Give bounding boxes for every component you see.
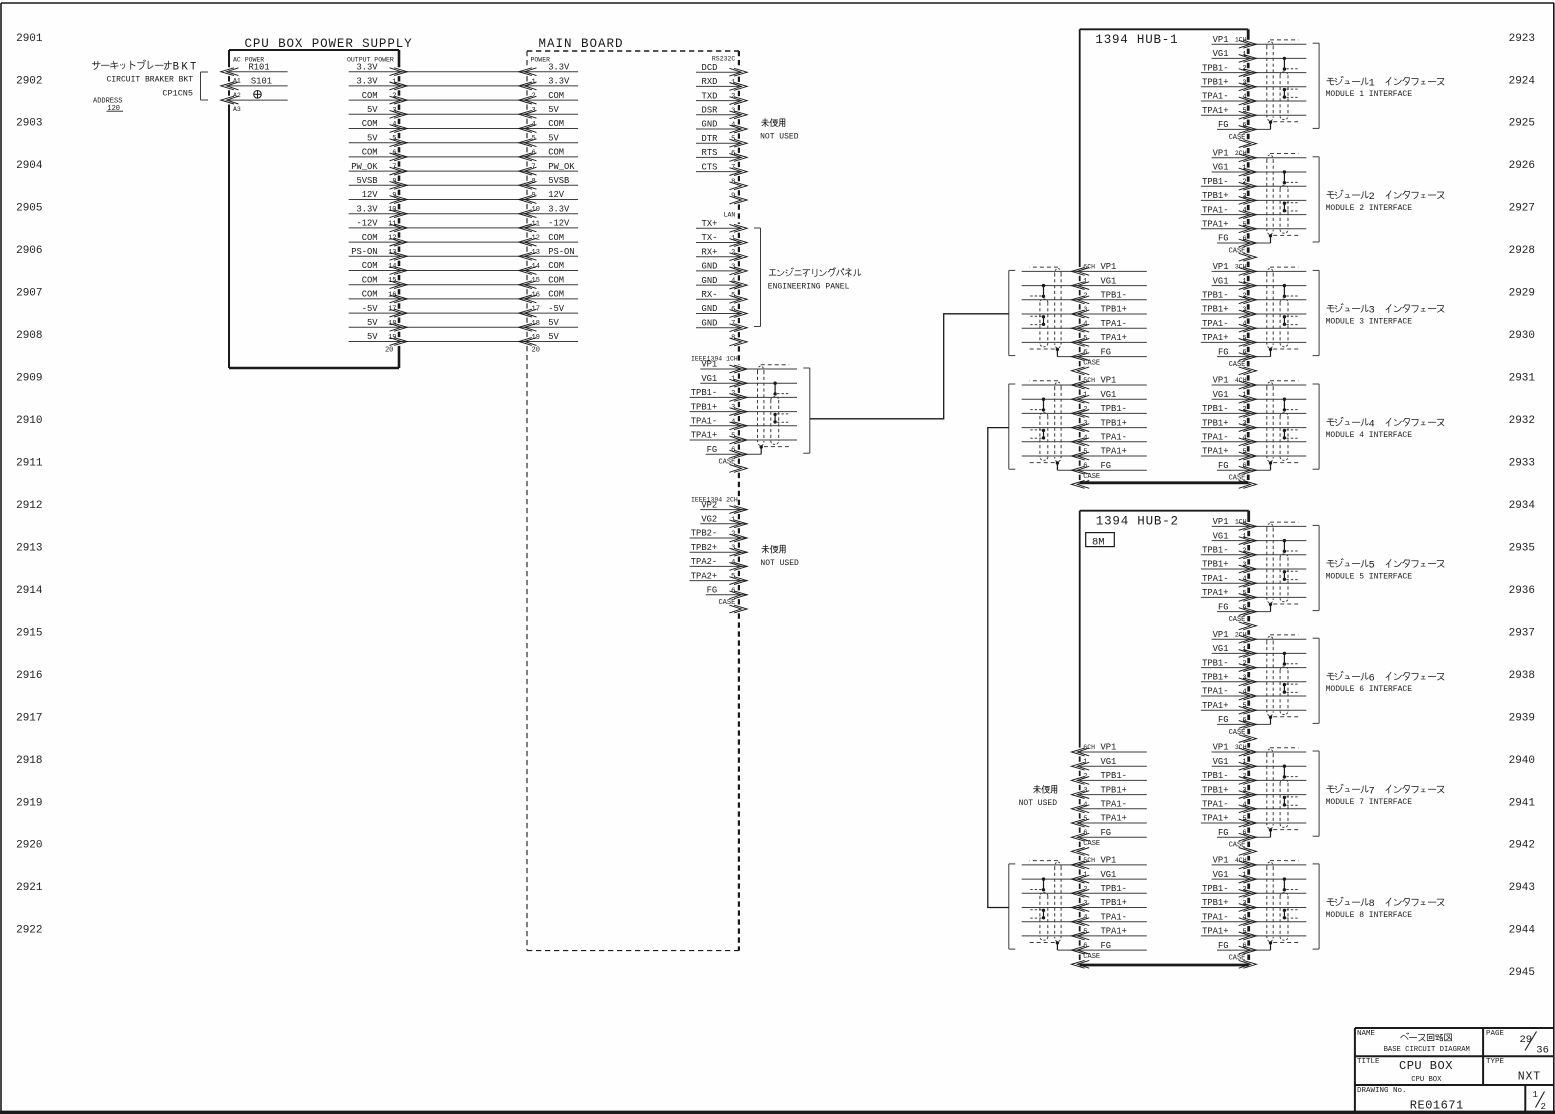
svg-text:3.3V: 3.3V	[356, 62, 378, 72]
svg-text:VG1: VG1	[1213, 531, 1229, 541]
svg-text:TPA1+: TPA1+	[1101, 447, 1127, 457]
svg-text:TPA1+: TPA1+	[1202, 106, 1228, 116]
svg-text:VG1: VG1	[701, 374, 717, 384]
svg-text:2: 2	[1541, 1102, 1546, 1112]
svg-text:1: 1	[731, 79, 735, 87]
svg-text:VG1: VG1	[1213, 276, 1229, 286]
svg-text:16: 16	[388, 291, 396, 299]
svg-text:DCD: DCD	[702, 63, 718, 73]
svg-text:2: 2	[532, 93, 536, 101]
svg-text:5V: 5V	[367, 332, 378, 342]
svg-text:7: 7	[1369, 786, 1375, 797]
svg-text:FG: FG	[1218, 347, 1229, 357]
svg-text:2: 2	[731, 249, 735, 257]
svg-text:TPB1+: TPB1+	[1101, 898, 1127, 908]
svg-text:3: 3	[532, 107, 536, 115]
svg-text:RX+: RX+	[702, 247, 718, 257]
svg-text:TPB1-: TPB1-	[1101, 404, 1127, 414]
svg-text:6: 6	[731, 306, 735, 314]
svg-text:FG: FG	[1101, 828, 1112, 838]
svg-text:BASE CIRCUIT DIAGRAM: BASE CIRCUIT DIAGRAM	[1384, 1046, 1470, 1054]
svg-text:COM: COM	[362, 275, 378, 285]
svg-text:2922: 2922	[16, 925, 42, 937]
svg-text:TPB1+: TPB1+	[1202, 673, 1228, 683]
svg-text:2: 2	[731, 93, 735, 101]
svg-text:8: 8	[392, 178, 396, 186]
svg-text:TPB1-: TPB1-	[1101, 771, 1127, 781]
svg-text:COM: COM	[362, 91, 378, 101]
svg-text:4: 4	[731, 278, 735, 286]
svg-text:1: 1	[532, 78, 536, 86]
svg-text:VP1: VP1	[1213, 517, 1229, 527]
svg-text:VP1: VP1	[1213, 630, 1229, 640]
svg-text:1CH: 1CH	[1235, 519, 1247, 526]
svg-text:1: 1	[1369, 79, 1375, 90]
svg-text:2936: 2936	[1509, 585, 1535, 597]
svg-text:6: 6	[1369, 674, 1375, 685]
svg-text:10: 10	[388, 206, 396, 214]
svg-text:CPU BOX POWER SUPPLY: CPU BOX POWER SUPPLY	[245, 37, 413, 51]
svg-text:5V: 5V	[548, 318, 559, 328]
svg-text:2939: 2939	[1509, 712, 1535, 724]
svg-text:VG1: VG1	[1213, 644, 1229, 654]
svg-text:2935: 2935	[1509, 542, 1535, 554]
svg-text:CASE: CASE	[1229, 842, 1246, 850]
svg-text:TPB1-: TPB1-	[1202, 177, 1228, 187]
svg-text:6: 6	[731, 150, 735, 158]
svg-text:9: 9	[392, 192, 396, 200]
svg-text:2924: 2924	[1509, 75, 1536, 87]
svg-text:CASE: CASE	[718, 599, 735, 607]
svg-text:FG: FG	[707, 586, 718, 596]
svg-text:1: 1	[1533, 1090, 1538, 1100]
svg-text:FG: FG	[1218, 234, 1229, 244]
svg-text:2915: 2915	[16, 627, 42, 639]
svg-text:TPB1+: TPB1+	[691, 402, 717, 412]
svg-text:5CH: 5CH	[1083, 377, 1095, 384]
svg-text:10: 10	[532, 206, 540, 214]
svg-text:GND: GND	[702, 262, 718, 272]
svg-text:VG1: VG1	[1101, 390, 1117, 400]
svg-text:TPA1-: TPA1-	[1202, 687, 1228, 697]
svg-text:NOT USED: NOT USED	[760, 133, 799, 142]
svg-text:3CH: 3CH	[1235, 264, 1247, 271]
svg-text:3: 3	[731, 107, 735, 115]
svg-text:CASE: CASE	[1083, 953, 1100, 961]
svg-text:FG: FG	[1101, 461, 1112, 471]
svg-text:ENGINEERING PANEL: ENGINEERING PANEL	[768, 282, 850, 291]
svg-text:5V: 5V	[548, 133, 559, 143]
svg-text:IEEE1394 1CH: IEEE1394 1CH	[691, 356, 738, 363]
svg-text:2: 2	[1369, 192, 1375, 203]
svg-text:TPA1+: TPA1+	[1202, 701, 1228, 711]
svg-text:DSR: DSR	[702, 106, 719, 116]
svg-text:TPA1-: TPA1-	[1101, 800, 1127, 810]
svg-text:CPU BOX: CPU BOX	[1411, 1076, 1442, 1084]
svg-text:MODULE 2 INTERFACE: MODULE 2 INTERFACE	[1326, 204, 1413, 213]
svg-text:2916: 2916	[16, 670, 42, 682]
svg-text:TPA1-: TPA1-	[1202, 912, 1228, 922]
svg-text:4CH: 4CH	[1235, 377, 1247, 384]
svg-text:TPA1+: TPA1+	[1101, 814, 1127, 824]
svg-text:NOT USED: NOT USED	[760, 559, 799, 568]
svg-text:TPB1+: TPB1+	[1101, 418, 1127, 428]
svg-text:VP1: VP1	[1213, 743, 1229, 753]
svg-text:TPB1+: TPB1+	[1202, 560, 1228, 570]
svg-text:MODULE 8 INTERFACE: MODULE 8 INTERFACE	[1326, 911, 1413, 920]
svg-text:3: 3	[731, 263, 735, 271]
svg-text:2907: 2907	[16, 288, 42, 300]
svg-text:-5V: -5V	[548, 304, 565, 314]
svg-text:2933: 2933	[1509, 458, 1535, 470]
svg-text:17: 17	[388, 306, 396, 314]
svg-text:CASE: CASE	[1229, 955, 1246, 963]
svg-text:COM: COM	[362, 290, 378, 300]
svg-text:TPA1+: TPA1+	[1202, 447, 1228, 457]
svg-text:IEEE1394 2CH: IEEE1394 2CH	[691, 496, 738, 503]
svg-text:MODULE 3 INTERFACE: MODULE 3 INTERFACE	[1326, 317, 1413, 326]
svg-text:VP1: VP1	[1213, 35, 1229, 45]
svg-text:8: 8	[1369, 899, 1375, 910]
svg-text:CASE: CASE	[1229, 616, 1246, 624]
svg-text:2909: 2909	[16, 373, 42, 385]
svg-text:TPA1-: TPA1-	[1101, 912, 1127, 922]
svg-text:VP1: VP1	[1213, 376, 1229, 386]
svg-text:12V: 12V	[362, 190, 379, 200]
svg-text:2908: 2908	[16, 330, 42, 342]
svg-text:6: 6	[392, 149, 396, 157]
svg-text:7: 7	[731, 164, 735, 172]
svg-text:VG1: VG1	[1213, 163, 1229, 173]
svg-text:1394 HUB-2: 1394 HUB-2	[1096, 514, 1179, 528]
svg-text:13: 13	[388, 249, 396, 257]
svg-text:T: T	[190, 62, 196, 74]
svg-text:2921: 2921	[16, 882, 43, 894]
svg-text:CASE: CASE	[1229, 475, 1246, 483]
svg-text:6CH: 6CH	[1083, 264, 1095, 271]
svg-text:VP1: VP1	[1213, 856, 1229, 866]
svg-text:5V: 5V	[367, 133, 378, 143]
svg-text:2901: 2901	[16, 33, 43, 45]
svg-text:TPB1-: TPB1-	[1202, 546, 1228, 556]
svg-text:COM: COM	[362, 119, 378, 129]
svg-text:PW_OK: PW_OK	[351, 162, 378, 172]
svg-text:-12V: -12V	[548, 219, 570, 229]
svg-text:COM: COM	[548, 261, 564, 271]
svg-text:VG1: VG1	[1213, 390, 1229, 400]
svg-text:11: 11	[388, 220, 396, 228]
svg-text:GND: GND	[702, 276, 718, 286]
svg-text:TPB1-: TPB1-	[1202, 291, 1228, 301]
svg-text:CP1CN5: CP1CN5	[162, 89, 193, 99]
svg-text:S101: S101	[251, 77, 272, 87]
svg-text:3: 3	[392, 107, 396, 115]
svg-text:CASE: CASE	[1229, 134, 1246, 142]
svg-text:2931: 2931	[1509, 373, 1536, 385]
svg-text:DTR: DTR	[702, 134, 719, 144]
svg-text:FG: FG	[1218, 828, 1229, 838]
svg-text:9: 9	[731, 193, 735, 201]
svg-text:2CH: 2CH	[1235, 631, 1247, 638]
svg-text:5V: 5V	[367, 105, 378, 115]
svg-text:2902: 2902	[16, 75, 42, 87]
svg-text:NOT USED: NOT USED	[1019, 799, 1058, 808]
svg-text:14: 14	[532, 263, 540, 271]
svg-text:13: 13	[532, 249, 540, 257]
svg-text:RE01671: RE01671	[1410, 1098, 1464, 1112]
svg-text:4: 4	[731, 122, 735, 130]
svg-text:2CH: 2CH	[1235, 150, 1247, 157]
svg-text:FG: FG	[1101, 347, 1112, 357]
svg-text:TPA2-: TPA2-	[691, 557, 717, 567]
svg-text:5V: 5V	[367, 318, 378, 328]
svg-text:6CH: 6CH	[1083, 744, 1095, 751]
svg-text:VP1: VP1	[1101, 743, 1117, 753]
svg-text:2910: 2910	[16, 415, 42, 427]
svg-text:TPA1-: TPA1-	[691, 417, 717, 427]
svg-text:2928: 2928	[1509, 245, 1535, 257]
svg-text:TPA1-: TPA1-	[1101, 319, 1127, 329]
svg-text:COM: COM	[548, 233, 564, 243]
svg-text:TPB1+: TPB1+	[1202, 78, 1228, 88]
svg-text:18: 18	[532, 320, 540, 328]
svg-text:TITLE: TITLE	[1357, 1058, 1380, 1066]
svg-text:2: 2	[392, 93, 396, 101]
svg-text:12V: 12V	[548, 190, 565, 200]
svg-text:2904: 2904	[16, 160, 43, 172]
svg-text:20: 20	[532, 346, 540, 354]
svg-text:2926: 2926	[1509, 160, 1535, 172]
svg-text:NXT: NXT	[1518, 1070, 1541, 1083]
svg-text:RS232C: RS232C	[712, 56, 736, 63]
svg-text:18: 18	[388, 320, 396, 328]
svg-text:POWER: POWER	[531, 57, 551, 64]
svg-text:TYPE: TYPE	[1486, 1058, 1505, 1066]
svg-text:TPA1-: TPA1-	[1202, 319, 1228, 329]
svg-text:2914: 2914	[16, 585, 43, 597]
svg-text:TPB1-: TPB1-	[1202, 884, 1228, 894]
svg-text:CASE: CASE	[1229, 361, 1246, 369]
svg-text:TPA1+: TPA1+	[1202, 333, 1228, 343]
svg-text:1394 HUB-1: 1394 HUB-1	[1095, 33, 1178, 47]
svg-text:TPA1-: TPA1-	[1202, 433, 1228, 443]
svg-text:COM: COM	[548, 275, 564, 285]
svg-text:2905: 2905	[16, 203, 42, 215]
svg-text:4: 4	[532, 121, 536, 129]
svg-text:5: 5	[731, 292, 735, 300]
svg-text:TPB1-: TPB1-	[1202, 63, 1228, 73]
svg-text:TPA1-: TPA1-	[1202, 574, 1228, 584]
svg-text:2938: 2938	[1509, 670, 1535, 682]
svg-text:TX-: TX-	[702, 233, 718, 243]
svg-text:VP1: VP1	[1213, 149, 1229, 159]
svg-text:4: 4	[392, 121, 396, 129]
svg-text:4CH: 4CH	[1235, 857, 1247, 864]
svg-text:3.3V: 3.3V	[548, 204, 570, 214]
svg-text:1: 1	[392, 78, 396, 86]
svg-text:3.3V: 3.3V	[356, 204, 378, 214]
svg-text:14: 14	[388, 263, 396, 271]
svg-text:TPA1+: TPA1+	[1202, 588, 1228, 598]
svg-text:3.3V: 3.3V	[356, 77, 378, 87]
svg-text:CASE: CASE	[1083, 360, 1100, 368]
svg-text:DRAWING No.: DRAWING No.	[1357, 1087, 1407, 1095]
svg-text:VG1: VG1	[1101, 276, 1117, 286]
svg-text:MODULE 6 INTERFACE: MODULE 6 INTERFACE	[1326, 685, 1413, 694]
svg-text:TPA1-: TPA1-	[1202, 92, 1228, 102]
svg-text:CPU BOX: CPU BOX	[1399, 1059, 1453, 1073]
svg-text:FG: FG	[1218, 461, 1229, 471]
svg-text:2937: 2937	[1509, 627, 1535, 639]
svg-text:FG: FG	[1218, 602, 1229, 612]
svg-text:FG: FG	[707, 445, 718, 455]
svg-text:MODULE 4 INTERFACE: MODULE 4 INTERFACE	[1326, 431, 1413, 440]
svg-text:R101: R101	[249, 62, 270, 72]
svg-text:12: 12	[388, 235, 396, 243]
svg-text:MODULE 5 INTERFACE: MODULE 5 INTERFACE	[1326, 572, 1413, 581]
svg-text:36: 36	[1536, 1045, 1549, 1057]
svg-text:TPB1-: TPB1-	[1101, 291, 1127, 301]
svg-text:VP1: VP1	[1101, 262, 1117, 272]
svg-text:5: 5	[392, 135, 396, 143]
svg-text:3.3V: 3.3V	[548, 62, 570, 72]
svg-text:COM: COM	[362, 233, 378, 243]
svg-text:2943: 2943	[1509, 882, 1535, 894]
svg-text:TPA1+: TPA1+	[1101, 333, 1127, 343]
svg-text:2925: 2925	[1509, 118, 1535, 130]
svg-text:2942: 2942	[1509, 840, 1535, 852]
svg-text:19: 19	[388, 334, 396, 342]
svg-text:CASE: CASE	[718, 459, 735, 467]
svg-text:MODULE 7 INTERFACE: MODULE 7 INTERFACE	[1326, 798, 1413, 807]
svg-text:5: 5	[532, 135, 536, 143]
svg-text:COM: COM	[548, 119, 564, 129]
svg-text:2920: 2920	[16, 840, 42, 852]
svg-text:COM: COM	[362, 261, 378, 271]
svg-text:TX+: TX+	[702, 219, 718, 229]
svg-text:TXD: TXD	[702, 91, 718, 101]
svg-text:TPB1-: TPB1-	[691, 388, 717, 398]
svg-text:5CH: 5CH	[1083, 857, 1095, 864]
svg-text:7: 7	[532, 164, 536, 172]
svg-text:VG2: VG2	[701, 515, 717, 525]
svg-text:VG1: VG1	[1101, 870, 1117, 880]
svg-text:2923: 2923	[1509, 33, 1535, 45]
svg-text:17: 17	[532, 306, 540, 314]
svg-text:2932: 2932	[1509, 415, 1535, 427]
svg-text:9: 9	[532, 192, 536, 200]
svg-text:7: 7	[392, 164, 396, 172]
svg-text:RXD: RXD	[702, 77, 718, 87]
svg-text:VG1: VG1	[1213, 49, 1229, 59]
svg-text:TPA1-: TPA1-	[1202, 205, 1228, 215]
svg-text:CASE: CASE	[1229, 247, 1246, 255]
svg-text:B: B	[173, 62, 179, 74]
svg-text:12: 12	[532, 235, 540, 243]
svg-text:2912: 2912	[16, 500, 42, 512]
svg-text:TPB1+: TPB1+	[1202, 418, 1228, 428]
svg-text:CASE: CASE	[1083, 840, 1100, 848]
svg-text:-12V: -12V	[356, 219, 378, 229]
svg-text:5V: 5V	[548, 105, 559, 115]
svg-text:3: 3	[1369, 306, 1375, 317]
svg-text:RTS: RTS	[702, 148, 718, 158]
svg-text:2941: 2941	[1509, 797, 1536, 809]
svg-text:2934: 2934	[1509, 500, 1536, 512]
svg-text:CIRCUIT BRAKER BKT: CIRCUIT BRAKER BKT	[107, 76, 194, 85]
svg-text:MODULE 1 INTERFACE: MODULE 1 INTERFACE	[1326, 90, 1413, 99]
svg-text:29: 29	[1520, 1034, 1533, 1046]
svg-text:FG: FG	[1218, 715, 1229, 725]
svg-text:TPB1-: TPB1-	[1202, 404, 1228, 414]
svg-text:2918: 2918	[16, 755, 42, 767]
svg-text:RX-: RX-	[702, 290, 718, 300]
svg-text:COM: COM	[362, 148, 378, 158]
svg-text:CASE: CASE	[1083, 473, 1100, 481]
svg-text:2911: 2911	[16, 458, 43, 470]
svg-text:2917: 2917	[16, 712, 42, 724]
svg-text:5VSB: 5VSB	[356, 176, 377, 186]
svg-text:2927: 2927	[1509, 203, 1535, 215]
svg-text:VP1: VP1	[1101, 376, 1117, 386]
svg-text:5: 5	[731, 136, 735, 144]
svg-text:GND: GND	[702, 120, 718, 130]
svg-text:MAIN BOARD: MAIN BOARD	[539, 37, 624, 51]
svg-text:CTS: CTS	[702, 162, 718, 172]
svg-text:TPB1+: TPB1+	[1202, 305, 1228, 315]
svg-text:K: K	[181, 62, 188, 74]
svg-text:TPB1-: TPB1-	[1202, 658, 1228, 668]
svg-text:2906: 2906	[16, 245, 42, 257]
svg-text:TPA1+: TPA1+	[1202, 927, 1228, 937]
svg-text:4: 4	[1369, 419, 1375, 430]
svg-text:2919: 2919	[16, 797, 42, 809]
svg-text:FG: FG	[1218, 941, 1229, 951]
svg-text:COM: COM	[548, 290, 564, 300]
svg-text:TPB2+: TPB2+	[691, 543, 717, 553]
svg-text:2940: 2940	[1509, 755, 1535, 767]
svg-text:2913: 2913	[16, 542, 42, 554]
svg-text:5V: 5V	[548, 332, 559, 342]
svg-text:19: 19	[532, 334, 540, 342]
svg-text:6: 6	[532, 149, 536, 157]
svg-text:3CH: 3CH	[1235, 744, 1247, 751]
svg-text:11: 11	[532, 220, 540, 228]
svg-text:2930: 2930	[1509, 330, 1535, 342]
svg-text:TPB1+: TPB1+	[1101, 305, 1127, 315]
svg-text:TPB1-: TPB1-	[1202, 771, 1228, 781]
svg-text:PAGE: PAGE	[1486, 1030, 1505, 1038]
svg-text:GND: GND	[702, 318, 718, 328]
svg-text:TPB1+: TPB1+	[1202, 191, 1228, 201]
svg-text:COM: COM	[548, 91, 564, 101]
svg-text:PS-ON: PS-ON	[548, 247, 574, 257]
svg-text:TPA1+: TPA1+	[1202, 220, 1228, 230]
svg-text:VG1: VG1	[1101, 757, 1117, 767]
svg-text:COM: COM	[548, 148, 564, 158]
svg-text:FG: FG	[1218, 120, 1229, 130]
svg-text:VP1: VP1	[1213, 262, 1229, 272]
svg-text:8: 8	[731, 178, 735, 186]
svg-text:TPA1-: TPA1-	[1202, 800, 1228, 810]
svg-text:5VSB: 5VSB	[548, 176, 569, 186]
svg-text:15: 15	[388, 277, 396, 285]
svg-text:TPB2-: TPB2-	[691, 529, 717, 539]
svg-text:TPA1+: TPA1+	[1202, 814, 1228, 824]
svg-text:-5V: -5V	[362, 304, 379, 314]
svg-text:8: 8	[532, 178, 536, 186]
svg-text:8M: 8M	[1092, 537, 1105, 549]
